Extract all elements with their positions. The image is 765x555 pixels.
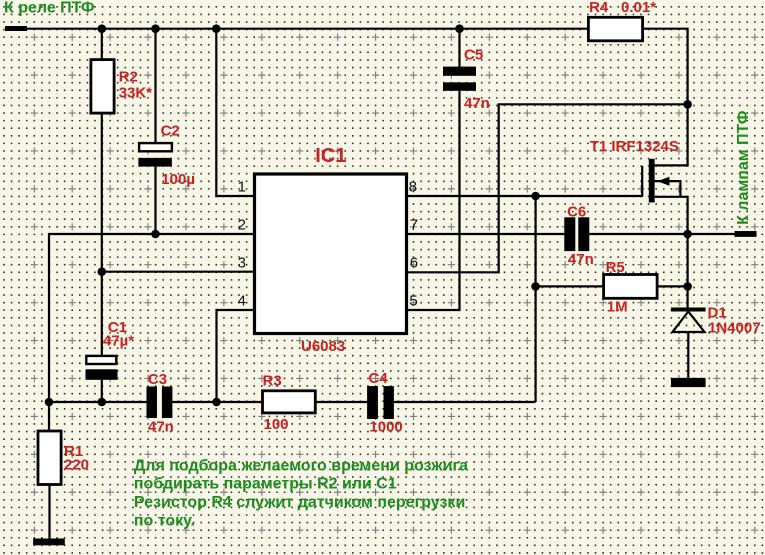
wire: gate branch down to C4 [534, 196, 536, 402]
svg-text:R2: R2 [119, 68, 138, 85]
svg-text:R5: R5 [606, 259, 625, 276]
junction: top rail / R2 [98, 24, 107, 33]
svg-text:C3: C3 [148, 371, 167, 388]
svg-text:1M: 1M [607, 299, 628, 316]
junction: bottom rail / C1 [98, 398, 107, 407]
terminal: output (К лампам ПТФ) [735, 231, 757, 237]
capacitor C2 (electrolytic) [138, 29, 172, 234]
wire: top rail [27, 28, 588, 30]
svg-text:3: 3 [238, 254, 246, 271]
svg-text:1: 1 [238, 178, 246, 195]
wire: pin 8 / gate [407, 195, 643, 197]
resistor R4 [588, 17, 687, 104]
capacitor C5 [407, 29, 477, 310]
svg-text:Резистор R4 служит датчиком пе: Резистор R4 служит датчиком перегрузки [134, 494, 465, 511]
svg-text:К реле ПТФ: К реле ПТФ [4, 0, 95, 17]
svg-text:1000: 1000 [369, 419, 402, 436]
junction: top rail / C2 [151, 24, 160, 33]
svg-text:47n: 47n [464, 95, 490, 112]
junction: top rail / C5 [455, 24, 464, 33]
wire: pin 6 to drain node [407, 104, 688, 272]
svg-text:47n: 47n [568, 251, 594, 268]
svg-text:C4: C4 [369, 370, 389, 387]
svg-text:К лампам ПТФ: К лампам ПТФ [735, 110, 752, 225]
IC U1: IC1 box [255, 174, 407, 334]
junction: R5 left [531, 282, 540, 291]
svg-text:побдирать параметры R2 или С1: побдирать параметры R2 или С1 [134, 476, 397, 493]
svg-text:C2: C2 [161, 123, 180, 140]
svg-text:Для подбора желаемого времени: Для подбора желаемого времени розжига [134, 457, 468, 474]
svg-text:R4: R4 [589, 0, 609, 16]
junction: pin 3 / R2 / C1 [98, 267, 107, 276]
wire: pin 3 [102, 271, 255, 273]
junction: top rail / pin 1 [212, 24, 221, 33]
svg-text:100µ: 100µ [161, 171, 195, 188]
capacitor C6 [407, 217, 688, 251]
capacitor C1 (electrolytic) [86, 272, 118, 402]
svg-text:8: 8 [409, 178, 417, 195]
svg-text:C5: C5 [464, 47, 483, 64]
resistor R2 [91, 29, 114, 272]
svg-text:5: 5 [409, 292, 417, 309]
svg-text:2: 2 [238, 216, 246, 233]
svg-text:220: 220 [64, 457, 89, 474]
svg-text:47µ*: 47µ* [103, 333, 134, 350]
junction: output node [683, 230, 692, 239]
svg-text:C6: C6 [567, 204, 586, 221]
capacitor C4 [367, 386, 394, 419]
wire: output to terminal [688, 233, 735, 235]
wire: pin 1 [216, 29, 254, 196]
svg-text:33K*: 33K* [119, 84, 153, 101]
junction: bottom rail / pin 4 [212, 398, 221, 407]
capacitor C3 [147, 387, 173, 419]
svg-text:47n: 47n [148, 418, 174, 435]
wire: bottom rail (pin2 node) [49, 401, 536, 403]
wire: output node down to D1 [686, 234, 688, 308]
ground: R1 [33, 539, 65, 546]
svg-text:6: 6 [410, 254, 418, 271]
resistor R3 [263, 391, 316, 413]
svg-text:1N4007: 1N4007 [708, 319, 761, 336]
transistor T1 (N-MOSFET) [642, 104, 687, 234]
resistor R5 [536, 275, 688, 299]
junction: drain node [683, 100, 692, 109]
wire: pin 2 [49, 234, 255, 402]
svg-text:100: 100 [264, 416, 289, 433]
svg-text:0.01*: 0.01* [621, 0, 656, 16]
svg-text:4: 4 [238, 292, 246, 309]
junction: R5 right / D1 [683, 282, 692, 291]
svg-text:IC1: IC1 [315, 145, 346, 167]
ground: D1 [671, 378, 706, 387]
junction: pin 2 / C2 [151, 230, 160, 239]
junction: bottom rail / R1 [45, 398, 54, 407]
svg-text:по току.: по току. [134, 513, 195, 530]
junction: pin 8 / R5-C4 branch [531, 192, 540, 201]
svg-text:U6083: U6083 [301, 338, 345, 355]
svg-text:R3: R3 [263, 373, 282, 390]
svg-text:T1 IRF1324S: T1 IRF1324S [590, 138, 679, 155]
svg-text:7: 7 [410, 216, 418, 233]
terminal: input (К реле ПТФ) [5, 26, 27, 31]
diode D1 [671, 308, 706, 378]
resistor R1 [38, 402, 61, 539]
wire: pin 4 [217, 310, 255, 402]
